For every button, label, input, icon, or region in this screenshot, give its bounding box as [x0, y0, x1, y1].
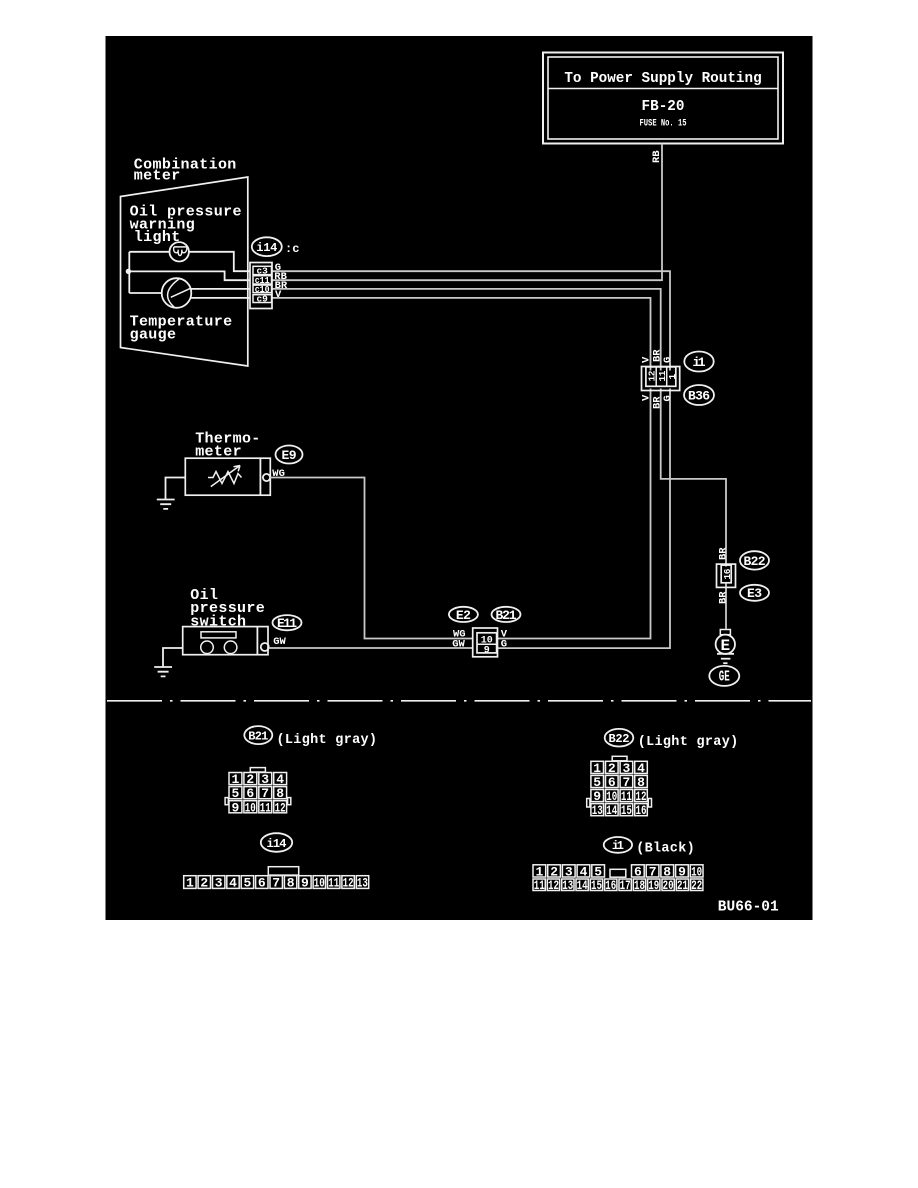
connector i1 legend pin 15 cell: [590, 879, 602, 891]
connector ellipse B36: [684, 385, 714, 405]
svg-text:V: V: [275, 289, 282, 301]
connector B21 legend pin 5 cell: [229, 787, 242, 799]
ground terminal E small rect: [720, 630, 730, 635]
svg-text:8: 8: [287, 876, 295, 891]
svg-text:E9: E9: [282, 448, 297, 463]
connector i1 legend pin 13 cell: [562, 879, 574, 891]
svg-text:GW: GW: [452, 638, 465, 650]
wire G: lamp left lead: [129, 251, 169, 253]
wire BR: connector c10 to i1 pin 11: [272, 289, 661, 371]
connector ellipse B21: [492, 607, 521, 622]
svg-text:8: 8: [276, 786, 284, 801]
svg-text:4: 4: [276, 772, 284, 787]
diagram background panel: [106, 36, 813, 920]
connector ellipse E9: [276, 446, 303, 464]
wire G: connector c3 to i1 pin 1: [272, 271, 671, 370]
ground hatch dash 2: [723, 662, 727, 664]
svg-text:3: 3: [622, 761, 630, 776]
svg-text:16: 16: [605, 878, 616, 893]
svg-text:GW: GW: [273, 636, 286, 648]
connector B22 legend pin 3 cell: [620, 761, 633, 773]
connector ellipse E3: [740, 585, 769, 601]
connector i14 legend pin 11 cell: [328, 876, 340, 889]
connector ellipse i1 bottom legend: [604, 837, 632, 853]
oil pressure switch contact 1: [201, 641, 214, 654]
thermometer connector strip line: [259, 458, 261, 495]
connector B22/E3 outer box: [717, 564, 736, 587]
svg-text::c: :c: [285, 242, 299, 256]
connector i14 legend pin 2 cell: [198, 876, 210, 889]
svg-text:3: 3: [261, 772, 269, 787]
svg-text:7: 7: [261, 786, 269, 801]
svg-text:i14: i14: [267, 837, 287, 851]
ground hatch dash 1: [721, 658, 731, 660]
svg-text:gauge: gauge: [130, 327, 177, 344]
thermometer variable resistor arrow: [211, 466, 240, 487]
connector ellipse GE: [709, 666, 739, 686]
connector B22 legend pin 14 cell: [606, 804, 619, 816]
connector B22 legend pin 15 cell: [620, 804, 633, 816]
svg-text:12: 12: [548, 878, 559, 893]
svg-text:RB: RB: [651, 150, 663, 163]
svg-text:21: 21: [677, 878, 688, 893]
connector i1 legend middle tab: [610, 869, 626, 877]
connector B22 legend pin 4 cell: [635, 761, 648, 773]
connector i14 legend pin 13 cell: [356, 876, 368, 889]
svg-text:9: 9: [484, 645, 490, 656]
svg-text:17: 17: [620, 878, 631, 893]
connector B22 legend pin 2 cell: [606, 761, 619, 773]
connector i1 legend pin 14 cell: [576, 879, 588, 891]
wire V: connector c9 to i1 pin 12: [272, 298, 651, 371]
svg-text:i1: i1: [612, 839, 624, 853]
thermometer pin circle: [263, 474, 270, 481]
connector i1 legend pin 19 cell: [648, 879, 660, 891]
wire G: lamp to connector c3: [189, 252, 251, 271]
wire G: B36 pin 1 down to connector B21: [498, 389, 671, 649]
oil pressure switch contact 2: [224, 641, 237, 654]
svg-text:10: 10: [606, 789, 617, 804]
connector i1 legend pin 8 cell: [661, 865, 674, 877]
connector B21 legend pin 12 cell: [274, 801, 287, 813]
connector i14 legend top tab: [268, 867, 298, 875]
connector ellipse E11: [273, 615, 302, 630]
svg-text:19: 19: [648, 878, 659, 893]
connector i14 pin c10 box: [253, 285, 272, 293]
wire RB: bus junction to connector c11: [128, 271, 250, 280]
lamp filament squiggle: [174, 247, 187, 256]
connector i14 legend pin 7 cell: [270, 876, 282, 889]
connector i1 legend pin 3 cell: [562, 865, 575, 877]
svg-text:8: 8: [637, 775, 645, 790]
svg-text:(Light gray): (Light gray): [638, 735, 739, 750]
connector i14 legend pin 4 cell: [227, 876, 239, 889]
svg-text:13: 13: [562, 878, 573, 893]
connector E2/B21 inner box: [477, 633, 497, 653]
lamp filament bar: [174, 246, 187, 248]
connector i14 legend pin 1 cell: [184, 876, 196, 889]
temperature gauge symbol: [162, 278, 192, 308]
svg-text:(Black): (Black): [636, 842, 695, 857]
connector B21 legend pin 8 cell: [274, 787, 287, 799]
connector i1 legend pin 20 cell: [662, 879, 674, 891]
oil pressure switch connector strip line: [256, 627, 258, 655]
svg-text:6: 6: [246, 786, 254, 801]
svg-text:15: 15: [591, 878, 602, 893]
svg-text:9: 9: [231, 800, 239, 815]
svg-text:B36: B36: [688, 389, 710, 404]
svg-text:1: 1: [593, 761, 601, 776]
svg-text:B22: B22: [744, 554, 766, 569]
svg-text:2: 2: [246, 772, 254, 787]
connector B22 legend left tab: [587, 799, 590, 808]
svg-text:10: 10: [314, 876, 325, 891]
connector B22 legend top tab: [612, 756, 627, 761]
wire RB from fuse box down: [661, 144, 663, 282]
svg-text:i1: i1: [693, 355, 706, 370]
connector i1 legend pin 22 cell: [691, 879, 703, 891]
oil pressure switch pin circle: [261, 643, 269, 651]
svg-text:6: 6: [258, 876, 266, 891]
connector i1 legend pin 4 cell: [577, 865, 590, 877]
svg-text:WG: WG: [272, 468, 285, 480]
connector B21 legend pin 4 cell: [274, 773, 287, 785]
svg-text:GE: GE: [719, 670, 730, 686]
svg-text:22: 22: [691, 878, 702, 893]
svg-text:G: G: [501, 639, 507, 651]
ground symbol at thermometer: [157, 500, 175, 509]
connector i1 legend pin 16 cell: [605, 879, 617, 891]
temperature gauge chord: [168, 279, 180, 308]
connector i14:c outer box: [250, 263, 272, 309]
connector i14 legend pin 10 cell: [313, 876, 325, 889]
power supply routing box FB-20 outer border: [543, 53, 783, 144]
svg-text:G: G: [662, 357, 674, 363]
svg-text:BR: BR: [718, 547, 730, 560]
junction dot on RB bus: [126, 269, 131, 274]
svg-text:To Power Supply Routing: To Power Supply Routing: [564, 71, 761, 87]
svg-text:(Light gray): (Light gray): [277, 733, 378, 748]
connector i1 legend pin 17 cell: [619, 879, 631, 891]
svg-text:5: 5: [231, 786, 239, 801]
connector E2/B21 divider: [477, 643, 497, 645]
power supply routing box inner border: [548, 57, 778, 139]
svg-text:i14: i14: [256, 241, 277, 255]
connector i1 legend pin 12 cell: [547, 879, 559, 891]
svg-text:9: 9: [301, 876, 309, 891]
connector i1 legend pin 1 cell: [533, 865, 546, 877]
svg-text:12: 12: [647, 370, 658, 381]
svg-text:switch: switch: [190, 614, 246, 631]
connector i1 legend pin 7 cell: [646, 865, 659, 877]
wire BR: E3 pin 16 down to ground terminal E: [725, 582, 727, 629]
connector ellipse B22 bottom legend: [605, 729, 634, 747]
connector ellipse B22: [740, 551, 769, 569]
svg-text:c9: c9: [256, 294, 268, 305]
connector B22 legend pin 8 cell: [635, 775, 648, 787]
svg-text:11: 11: [328, 876, 339, 891]
svg-text:6: 6: [608, 775, 616, 790]
svg-text:14: 14: [577, 878, 588, 893]
svg-text:13: 13: [357, 876, 368, 891]
connector B21 legend pin 7 cell: [259, 787, 272, 799]
svg-text:light: light: [134, 229, 181, 246]
connector i1 legend pin 11 cell: [533, 879, 545, 891]
svg-text:1: 1: [231, 772, 239, 787]
svg-text:B21: B21: [496, 608, 517, 623]
connector i1/B36 cell divider 2: [666, 367, 668, 386]
connector B22 legend pin 16 cell: [635, 804, 648, 816]
connector i1 legend pin 5 cell: [592, 865, 605, 877]
connector B21 legend pin 6 cell: [244, 787, 257, 799]
connector B22 legend pin 13 cell: [591, 804, 604, 816]
connector B22 legend pin 5 cell: [591, 775, 604, 787]
ground terminal plate line: [717, 653, 734, 655]
svg-text:11: 11: [260, 800, 271, 815]
connector i1/B36 cell divider 1: [655, 367, 657, 386]
connector B22 legend pin 12 cell: [635, 790, 648, 802]
connector E2/B21 outer box: [473, 628, 498, 657]
connector B21 legend top tab: [250, 768, 265, 772]
connector i1 legend pin 10 cell: [690, 865, 703, 877]
connector i1/B36 outer box: [642, 367, 680, 391]
svg-text:2: 2: [200, 876, 208, 891]
svg-text:1: 1: [667, 374, 678, 380]
connector B22 legend right tab: [648, 799, 651, 808]
svg-text:10: 10: [245, 800, 256, 815]
connector ellipse i14:c: [252, 237, 282, 256]
svg-text:FB-20: FB-20: [642, 99, 685, 115]
svg-text:2: 2: [608, 761, 616, 776]
svg-text:5: 5: [593, 775, 601, 790]
svg-text:1: 1: [186, 876, 194, 891]
thermometer box: [185, 458, 270, 495]
svg-text:B22: B22: [609, 732, 630, 746]
svg-text:E2: E2: [456, 608, 471, 623]
connector B21 legend pin 11 cell: [259, 801, 272, 813]
svg-text:7: 7: [622, 775, 630, 790]
ground terminal E circle: [716, 635, 735, 654]
wire BR: B36 pin 11 down to B22 pin 16: [661, 389, 726, 567]
connector B22 legend pin 1 cell: [591, 761, 604, 773]
connector B22 legend pin 7 cell: [620, 775, 633, 787]
separator dash-dot line: [107, 700, 811, 702]
temperature gauge needle: [171, 288, 191, 297]
svg-text:11: 11: [534, 878, 545, 893]
connector B21 legend pin 9 cell: [229, 801, 242, 813]
svg-text:E3: E3: [747, 586, 762, 601]
connector i14 pin c11 box: [253, 276, 272, 284]
connector B21 legend pin 10 cell: [244, 801, 257, 813]
connector ellipse B21 bottom legend: [244, 726, 272, 744]
connector B21 legend pin 3 cell: [259, 773, 272, 785]
svg-text:16: 16: [722, 568, 733, 579]
svg-text:G: G: [662, 395, 674, 401]
connector B22 legend pin 11 cell: [620, 790, 633, 802]
wire WG: thermometer to connector E2 pin 10: [270, 478, 473, 639]
thermometer variable resistor zigzag: [208, 472, 242, 484]
connector B21 legend pin 1 cell: [229, 773, 242, 785]
svg-text:B21: B21: [248, 729, 268, 743]
connector B22 legend pin 9 cell: [591, 790, 604, 802]
svg-text:4: 4: [229, 876, 237, 891]
svg-text:meter: meter: [134, 168, 181, 185]
svg-text:BR: BR: [718, 591, 730, 604]
connector i14 pin c3 box: [253, 266, 272, 274]
connector B22 legend pin 10 cell: [606, 790, 619, 802]
connector i1 legend pin 6 cell: [632, 865, 645, 877]
svg-text:11: 11: [621, 789, 632, 804]
wire: thermometer left lead to ground: [166, 478, 186, 500]
svg-text:15: 15: [621, 803, 632, 818]
svg-text:BU66-01: BU66-01: [718, 900, 779, 916]
connector i1 legend pin 9 cell: [676, 865, 689, 877]
oil pressure switch box: [183, 627, 268, 655]
connector B22 legend pin 6 cell: [606, 775, 619, 787]
connector ellipse i14 bottom legend: [261, 833, 292, 852]
oil pressure switch bar: [201, 632, 236, 638]
lamp: oil pressure warning light: [170, 242, 189, 261]
svg-text:13: 13: [592, 803, 603, 818]
wire V: gauge to connector c9: [190, 297, 250, 299]
svg-text:12: 12: [275, 800, 286, 815]
svg-text:meter: meter: [195, 444, 242, 461]
wire: gauge left lead: [129, 292, 162, 294]
connector i1 legend pin 2 cell: [548, 865, 561, 877]
svg-text:14: 14: [606, 803, 617, 818]
connector i14 legend pin 6 cell: [256, 876, 268, 889]
svg-text:4: 4: [637, 761, 645, 776]
wire RB: connector c11 to fuse box riser: [272, 279, 662, 282]
svg-text:3: 3: [215, 876, 223, 891]
connector i14 legend pin 3 cell: [213, 876, 225, 889]
svg-text:18: 18: [634, 878, 645, 893]
connector ellipse i1: [684, 352, 713, 372]
connector i1 legend pin 21 cell: [676, 879, 688, 891]
svg-text:E11: E11: [277, 616, 297, 631]
svg-text:20: 20: [663, 878, 674, 893]
connector i14 pin c9 box: [253, 295, 272, 303]
connector i14 legend pin 12 cell: [342, 876, 354, 889]
connector i1 legend pin 18 cell: [633, 879, 645, 891]
connector i1/B36 inner box: [646, 367, 676, 386]
connector B21 legend pin 2 cell: [244, 773, 257, 785]
svg-text:7: 7: [272, 876, 280, 891]
wire GW: oil switch to connector E2 pin 9: [269, 647, 473, 649]
svg-text:E: E: [720, 637, 730, 655]
wire BR: gauge to connector c10: [191, 288, 251, 290]
svg-text:12: 12: [636, 789, 647, 804]
combination meter trapezoid: [121, 177, 248, 366]
connector B21 legend right tab: [288, 798, 291, 805]
wire: left bus inside meter: [128, 252, 130, 293]
connector i14 legend pin 8 cell: [284, 876, 296, 889]
connector ellipse E2: [449, 607, 478, 622]
connector B21 legend left tab: [225, 798, 228, 805]
svg-text:5: 5: [243, 876, 251, 891]
connector B22/E3 inner box pin 16: [721, 565, 731, 583]
svg-text:FUSE No. 15: FUSE No. 15: [640, 119, 687, 130]
svg-text:16: 16: [636, 803, 647, 818]
power supply routing box divider: [548, 88, 778, 90]
connector i14 legend pin 5 cell: [241, 876, 253, 889]
wire V: B36 pin 12 down to connector B21: [498, 389, 651, 639]
wire: oil switch left lead to ground: [163, 648, 183, 667]
ground symbol at oil pressure switch: [154, 667, 172, 676]
svg-text:12: 12: [343, 876, 354, 891]
svg-text:9: 9: [593, 789, 601, 804]
connector i14 legend pin 9 cell: [299, 876, 311, 889]
